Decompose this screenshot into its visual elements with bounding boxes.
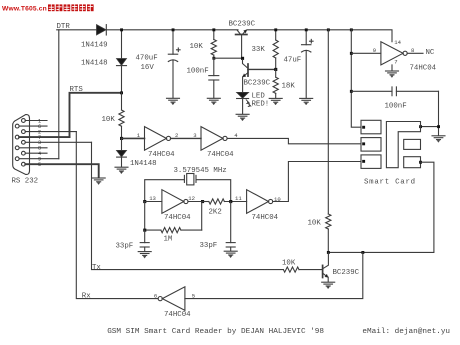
- capacitor C4 100nF (decoupling): [351, 87, 438, 96]
- svg-text:16V: 16V: [141, 64, 155, 72]
- pin 7 label: [394, 59, 397, 66]
- ground G1 (below D3): [115, 167, 128, 173]
- capacitor C3 47uF: [302, 30, 314, 98]
- junction dot R7 bottom: [327, 251, 330, 254]
- label Smart Card: [364, 178, 416, 186]
- svg-text:RED!: RED!: [252, 100, 270, 108]
- ground G7 (C3): [300, 98, 313, 104]
- wire DB9 row9 to ground (thick): [25, 164, 98, 177]
- smart card pad B2: [404, 139, 421, 149]
- wire pin9 to U1F input: [351, 52, 381, 54]
- DB9 pin 7 circle: [22, 151, 26, 155]
- junction dot pad B3: [419, 161, 422, 164]
- caption: [107, 328, 450, 336]
- label 10K (R1): [102, 116, 116, 124]
- pin 4 label (U1B out): [234, 132, 238, 139]
- label 74HC04 (U1B): [207, 151, 234, 159]
- junction dot rail at R2: [212, 28, 215, 31]
- svg-text:3.579545 MHz: 3.579545 MHz: [174, 167, 227, 175]
- svg-text:1N4149: 1N4149: [81, 42, 108, 50]
- svg-text:18K: 18K: [282, 83, 296, 91]
- wire pad B3 loop to pull-up node: [328, 162, 434, 252]
- label 18K: [282, 83, 296, 91]
- label 2K2: [209, 209, 222, 217]
- svg-text:13: 13: [149, 195, 156, 202]
- junction dot R2 bottom: [212, 57, 215, 60]
- svg-text:1M: 1M: [164, 236, 173, 244]
- wire card pad B1 to ground node: [421, 126, 439, 128]
- label 33pF (C5): [116, 242, 134, 250]
- pin 9 label: [373, 47, 376, 54]
- svg-text:Smart Card: Smart Card: [364, 178, 416, 186]
- pin 13 label: [149, 195, 156, 202]
- DB9 pin 1 circle: [22, 119, 26, 123]
- junction dot node13: [143, 200, 146, 203]
- svg-text:33pF: 33pF: [116, 242, 134, 250]
- op-amp U1A 74HC04 inverter: [145, 127, 171, 151]
- wire U1A out to U1B in: [171, 137, 201, 139]
- ground G10 (C5): [138, 252, 151, 258]
- header red CJK block glyphs: [48, 4, 94, 11]
- label LED RED!: [252, 93, 270, 109]
- junction dot rail at C3: [305, 28, 308, 31]
- svg-text:1N4148: 1N4148: [81, 60, 108, 68]
- label 3.579545 MHz: [174, 167, 227, 175]
- crystal X1: [184, 174, 196, 185]
- wire U1E out to card pad A3 (CLK): [273, 162, 361, 202]
- resistor R2 10K (rail): [211, 30, 216, 58]
- svg-text:1N4148: 1N4148: [130, 160, 157, 168]
- ground G8 (U1F pin7): [386, 71, 399, 77]
- junction dot rail at C1: [172, 28, 175, 31]
- resistor R3 33K: [273, 30, 278, 70]
- ground G11 (C6): [224, 251, 237, 257]
- capacitor C2 100nF: [209, 58, 219, 98]
- svg-text:9: 9: [373, 47, 376, 54]
- wire Rx line to U1C: [76, 132, 158, 299]
- wire Vcc column down to R7: [327, 30, 329, 214]
- svg-text:74HC04: 74HC04: [164, 214, 191, 222]
- svg-text:74HC04: 74HC04: [252, 214, 279, 222]
- junction dot Q1 base node: [241, 57, 244, 60]
- svg-text:LED: LED: [252, 93, 266, 101]
- wire Tx line: [92, 142, 284, 269]
- smart card pad B3: [404, 157, 421, 168]
- svg-text:3: 3: [193, 132, 196, 139]
- node Tx label: [92, 264, 101, 272]
- DB9 pin 3 circle: [22, 130, 26, 134]
- pin 5 label: [192, 293, 195, 300]
- label 1N4148 (D3): [130, 160, 157, 168]
- svg-text:BC239C: BC239C: [229, 20, 256, 28]
- svg-text:74HC04: 74HC04: [207, 151, 234, 159]
- smart card pad A1: [361, 120, 381, 134]
- label 74HC04 (U1C): [164, 311, 191, 319]
- header red site text: [2, 6, 47, 13]
- label BC239C (Q3): [333, 269, 360, 277]
- op-amp U1B 74HC04 inverter: [201, 127, 227, 151]
- junction dot node12: [201, 200, 204, 203]
- junction dot RTS node: [120, 91, 123, 94]
- resistor R5 2K2: [203, 199, 247, 204]
- node Rx label: [82, 293, 91, 301]
- label 10K (R2): [190, 43, 204, 51]
- resistor R4 18K: [273, 69, 278, 98]
- node RTS label: [70, 86, 84, 94]
- wire R2 to Q1 base node: [214, 57, 243, 59]
- pin 1 label (U1A): [137, 132, 141, 139]
- junction dot 100nF tap: [350, 90, 353, 93]
- ground G4 (C2): [207, 98, 220, 104]
- ground G5 (LED): [236, 114, 249, 120]
- svg-text:eMail: dejan@net.yu: eMail: dejan@net.yu: [362, 328, 450, 336]
- svg-text:Tx: Tx: [92, 264, 101, 272]
- DB9 pin 8 circle: [15, 157, 19, 161]
- label 10K (R7): [308, 220, 322, 228]
- label 33pF (C6): [200, 242, 218, 250]
- pin 6 label: [154, 293, 157, 300]
- pin 10 label: [274, 196, 281, 203]
- wire DB9 row1 stub: [25, 120, 47, 122]
- label 1N4148 (D2): [81, 60, 108, 68]
- pin 2 label (U1A out): [175, 132, 178, 139]
- label 100nF (C2): [187, 67, 209, 75]
- svg-text:RS 232: RS 232: [12, 178, 39, 186]
- label 74HC04 (U1A): [148, 151, 175, 159]
- ground G12 (Q3): [322, 282, 335, 288]
- DB9 pin 2 circle: [15, 124, 19, 128]
- svg-text:10K: 10K: [102, 116, 116, 124]
- svg-text:10K: 10K: [190, 43, 204, 51]
- label 1M: [164, 236, 173, 244]
- wire node1 to U1A input: [122, 137, 145, 139]
- wire DB9 row7 stub: [25, 152, 47, 154]
- svg-text:7: 7: [394, 59, 397, 66]
- junction dot pad A3: [362, 160, 365, 163]
- op-amp U1D 74HC04 inverter (osc): [162, 190, 188, 214]
- svg-text:74HC04: 74HC04: [148, 151, 175, 159]
- svg-text:33pF: 33pF: [200, 242, 218, 250]
- pin 12 label: [188, 195, 195, 202]
- svg-text:74HC04: 74HC04: [164, 311, 191, 319]
- junction dot 1M left: [143, 229, 146, 232]
- label RS 232: [12, 178, 39, 186]
- DB9 pin 6 circle: [15, 146, 19, 150]
- wire DB9 row6 stub: [19, 147, 47, 149]
- diode D2 1N4148: [117, 30, 127, 93]
- pin 11 label: [235, 195, 242, 202]
- svg-text:6: 6: [154, 293, 157, 300]
- smart card pad A2: [361, 138, 381, 152]
- wire DB9 row2 stub: [19, 125, 47, 127]
- svg-text:BC239C: BC239C: [244, 80, 271, 88]
- smart card center pad B1 (L-shape): [386, 122, 420, 168]
- ground G9 (card): [432, 136, 445, 142]
- smart card pad A3: [361, 155, 381, 169]
- svg-text:47uF: 47uF: [284, 57, 302, 65]
- svg-text:11: 11: [235, 195, 242, 202]
- label 10K (R8): [282, 260, 296, 268]
- wire DB9 row5 to Tx drop: [25, 141, 91, 143]
- label 33K: [252, 46, 266, 54]
- pin 3 label (U1B in): [193, 132, 196, 139]
- wire DB9 row3 to Rx drop: [25, 131, 76, 133]
- svg-text:Www.T605.cn: Www.T605.cn: [2, 6, 47, 13]
- svg-text:2K2: 2K2: [209, 209, 222, 217]
- ground G3 (C1): [167, 98, 180, 104]
- junction dot node11: [229, 200, 232, 203]
- diode D1 1N4149: [97, 25, 107, 35]
- capacitor C1 470uF: [168, 30, 180, 98]
- label 74HC04 (U1D): [164, 214, 191, 222]
- capacitor C6 33pF (right): [226, 202, 235, 251]
- label 470uF 16V: [136, 55, 158, 73]
- wire DB9 row8 to DTR: [19, 158, 59, 160]
- wire crystal top loop: [145, 180, 231, 202]
- junction dot node1: [120, 137, 123, 140]
- svg-text:BC239C: BC239C: [333, 269, 360, 277]
- pin 8 label: [411, 47, 414, 54]
- wire RTS: [70, 93, 122, 137]
- label BC239C (Q2): [244, 80, 271, 88]
- svg-text:8: 8: [411, 47, 414, 54]
- junction dot rail at U1 supply column: [350, 28, 353, 31]
- DB9 pin 9 circle: [22, 162, 26, 166]
- wire rail D1 to Q1: [106, 29, 238, 31]
- diode D3 1N4148: [117, 138, 127, 166]
- label 47uF: [284, 57, 302, 65]
- resistor R8 10K (base): [283, 267, 321, 272]
- label BC239C (Q1): [229, 20, 256, 28]
- op-amp U1F 74HC04 inverter (top right): [381, 42, 423, 71]
- resistor R1 10K (RTS pulldown chain): [119, 93, 124, 139]
- op-amp U1C 74HC04 inverter (Rx, faces left): [158, 287, 185, 311]
- label NC: [426, 49, 435, 57]
- junction dot rail at Vcc column: [327, 28, 330, 31]
- pin numbers DB9: [38, 118, 41, 168]
- wire DB9 row4 RTS (thick): [19, 136, 69, 138]
- svg-text:10K: 10K: [282, 260, 296, 268]
- svg-text:74HC04: 74HC04: [410, 64, 437, 72]
- junction dot pad B1: [419, 125, 422, 128]
- op-amp U1E 74HC04 inverter (osc buffer): [247, 190, 273, 214]
- svg-text:GSM SIM Smart Card Reader by D: GSM SIM Smart Card Reader by DEJAN HALJE…: [107, 328, 324, 336]
- svg-text:470uF: 470uF: [136, 55, 158, 63]
- junction dot pin9 tap: [350, 52, 353, 55]
- junction dot pad A1: [362, 126, 365, 129]
- junction dot pad A2: [362, 142, 365, 145]
- label 74HC04 (U1F): [410, 64, 437, 72]
- wire U1C out to pull-up node: [185, 252, 363, 298]
- transistor Q2 BC239C (LED driver): [243, 60, 276, 93]
- ground G2 (DB9): [92, 178, 105, 184]
- junction dot Rx riser: [361, 251, 364, 254]
- DB9 connector shell: [13, 115, 30, 175]
- svg-text:5: 5: [38, 162, 41, 168]
- junction dot rail at R3: [274, 28, 277, 31]
- transistor Q3 BC239C (Tx level): [323, 252, 329, 282]
- label 1N4149: [81, 42, 108, 50]
- label 74HC04 (U1E): [252, 214, 279, 222]
- LED D4: [237, 92, 251, 114]
- wire U1 supply column down to card pad A1: [351, 30, 361, 127]
- svg-text:Rx: Rx: [82, 293, 91, 301]
- wire C4 right down to ground node: [438, 91, 440, 135]
- wire U1D out to node12: [188, 201, 203, 203]
- svg-text:100nF: 100nF: [187, 67, 209, 75]
- wire DTR rail left: [57, 29, 97, 31]
- junction dot ground node: [437, 125, 440, 128]
- svg-text:100nF: 100nF: [385, 103, 407, 111]
- ground G6 (R4): [269, 98, 282, 104]
- pin 14 label: [394, 39, 401, 46]
- resistor R6 1M: [161, 228, 181, 233]
- DB9 pin 4 circle: [15, 135, 19, 139]
- svg-text:33K: 33K: [252, 46, 266, 54]
- capacitor C5 33pF (left): [140, 230, 149, 251]
- svg-text:NC: NC: [426, 49, 435, 57]
- junction dot R3/R4 collector node: [274, 68, 277, 71]
- DB9 pin 5 circle: [22, 140, 26, 144]
- wire node13 to U1D input: [145, 201, 162, 203]
- node DTR label: [57, 23, 71, 31]
- wire rail Q1 to inverter U1F: [247, 30, 392, 42]
- svg-text:10K: 10K: [308, 220, 322, 228]
- junction dot rail at D2: [120, 28, 123, 31]
- resistor R7 10K (card pull-up): [326, 214, 331, 252]
- wire U1B out to card pad A2 (RST): [227, 138, 361, 143]
- wire 1M feedback: [145, 202, 202, 231]
- label 100nF (C4): [385, 103, 407, 111]
- svg-text:14: 14: [394, 39, 401, 46]
- wire DTR vertical to DB9 pin8: [58, 30, 60, 159]
- transistor Q1 BC239C (top): [236, 30, 247, 58]
